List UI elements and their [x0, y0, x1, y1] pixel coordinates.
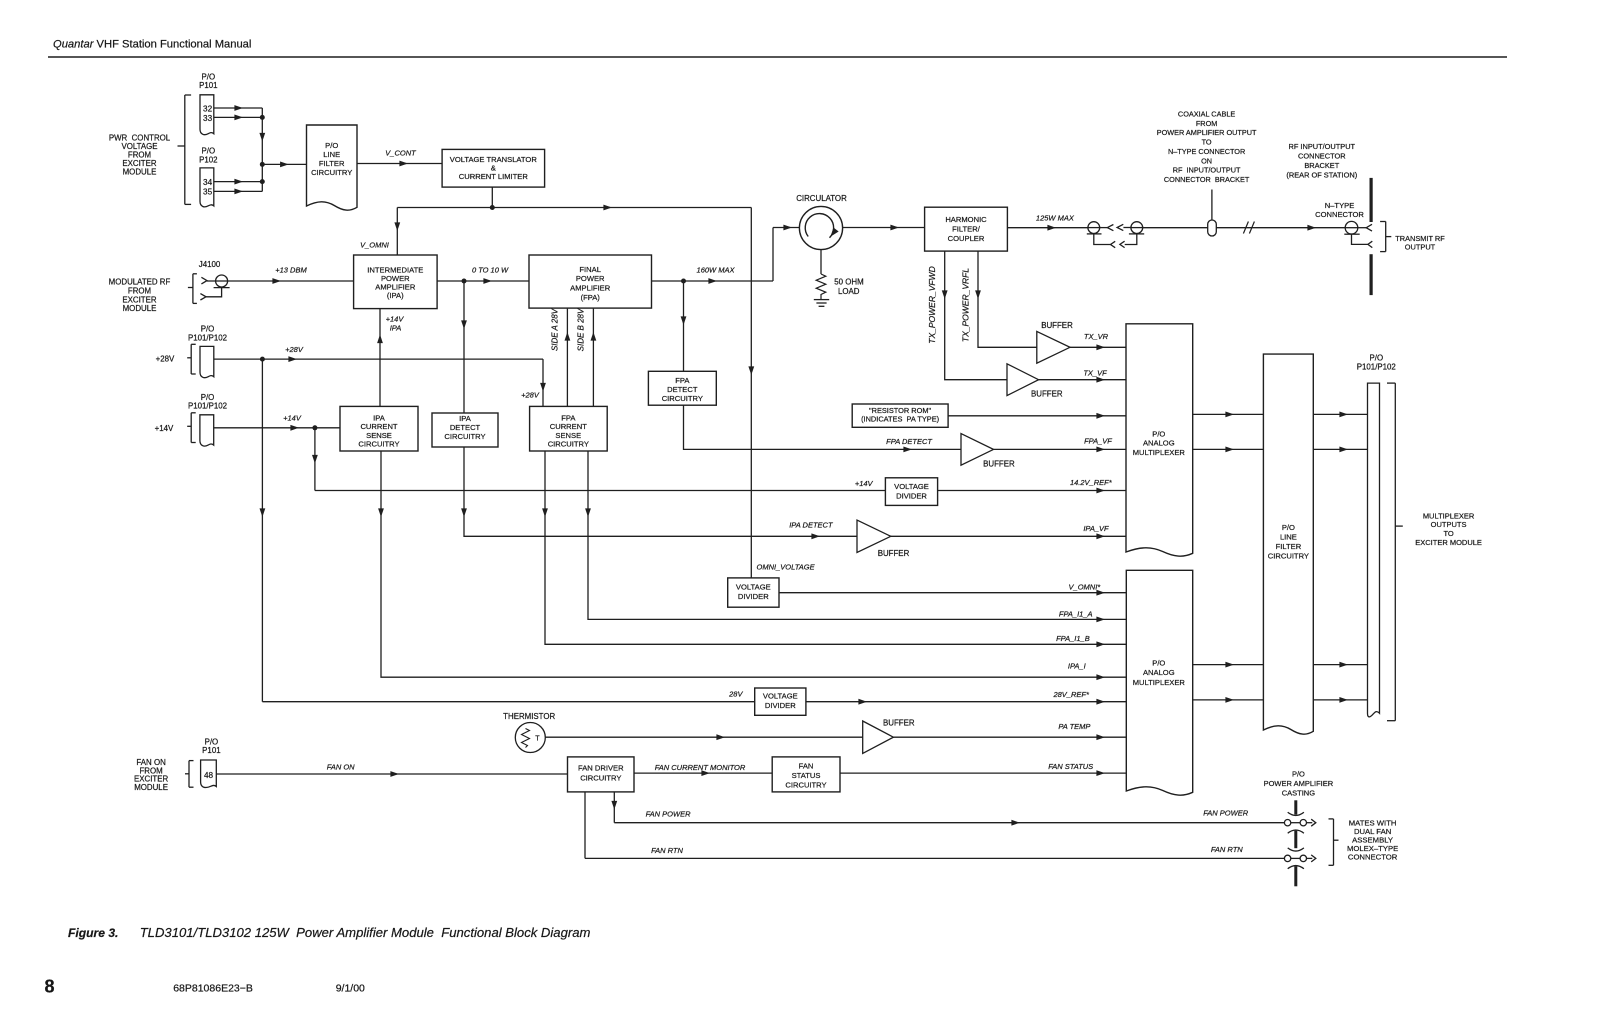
svg-text:EXCITER MODULE: EXCITER MODULE — [1415, 538, 1482, 547]
svg-text:TLD3101/TLD3102 125W Power Am: TLD3101/TLD3102 125W Power Amplifier Mod… — [140, 925, 591, 940]
svg-text:BUFFER: BUFFER — [983, 460, 1015, 469]
svg-text:HARMONIC: HARMONIC — [945, 215, 987, 224]
box U13 voltage divider (omni) — [728, 578, 779, 607]
brace molex connector — [1329, 819, 1339, 865]
svg-text:MULTIPLEXER: MULTIPLEXER — [1423, 511, 1475, 520]
buffer A1 (TX_VR) — [1037, 331, 1070, 363]
svg-text:FPA_VF: FPA_VF — [1084, 436, 1112, 445]
buffer A3 (FPA_VF) — [961, 434, 994, 466]
svg-text:33: 33 — [203, 114, 213, 123]
svg-text:FPA: FPA — [561, 413, 576, 422]
label CIRCULATOR — [796, 194, 847, 203]
header rule — [48, 56, 1507, 58]
svg-text:CONNECTOR: CONNECTOR — [1315, 210, 1364, 219]
box U17 fan status circuitry — [772, 757, 840, 792]
bracket +14V — [187, 413, 196, 443]
svg-text:SIDE A 28V: SIDE A 28V — [551, 308, 560, 351]
wire TX_VF to mux — [1039, 377, 1126, 383]
svg-text:8: 8 — [45, 977, 55, 997]
svg-text:TX_POWER_VFWD: TX_POWER_VFWD — [927, 266, 937, 343]
svg-text:ANALOG: ANALOG — [1143, 439, 1175, 448]
svg-text:VOLTAGE: VOLTAGE — [763, 692, 798, 701]
label MODULATED RF FROM EXCITER MODULE — [109, 278, 171, 314]
svg-text:FPA_I1_B: FPA_I1_B — [1056, 634, 1090, 643]
svg-text:&: & — [491, 164, 496, 173]
svg-text:68P81086E23−B: 68P81086E23−B — [173, 983, 253, 995]
wire bus to line filter — [262, 162, 306, 168]
svg-text:CIRCUITRY: CIRCUITRY — [548, 440, 589, 449]
text U5 — [945, 215, 987, 243]
label BUFFER A4 — [878, 549, 910, 558]
wire V_CONT — [357, 161, 442, 167]
casting flare 3 — [1288, 848, 1304, 851]
svg-text:+14V: +14V — [386, 315, 405, 324]
connector +14V flag — [200, 415, 214, 446]
wire FPA_I1_B output — [542, 451, 1126, 647]
box U14 voltage divider (28V) — [755, 688, 806, 715]
buffer A2 (TX_VF) — [1007, 364, 1039, 396]
box U6 P/O analog multiplexer (upper) — [1126, 324, 1193, 556]
label TRANSMIT RF OUTPUT — [1395, 234, 1445, 252]
wire pin33 to bus — [214, 115, 262, 121]
wire 14.2V_REF* to mux — [938, 488, 1126, 494]
svg-text:P/O: P/O — [1152, 429, 1165, 438]
svg-text:(REAR OF STATION): (REAR OF STATION) — [1286, 170, 1357, 179]
casting flare 1 — [1288, 812, 1304, 815]
svg-text:CURRENT LIMITER: CURRENT LIMITER — [459, 172, 529, 181]
svg-text:OUTPUTS: OUTPUTS — [1431, 520, 1467, 529]
wire V_OMNI* to mux — [779, 590, 1126, 596]
connector P101 pin 48 flag — [201, 760, 217, 788]
bracket PWR CONTROL group — [178, 95, 192, 204]
text U14 — [763, 692, 798, 711]
buffer A5 (PA TEMP) — [863, 721, 894, 753]
svg-text:N–TYPE CONNECTOR: N–TYPE CONNECTOR — [1168, 147, 1245, 156]
casting flare 2 — [1288, 830, 1304, 833]
svg-text:P/O: P/O — [1292, 770, 1305, 779]
net label V_OMNI — [360, 241, 389, 250]
svg-text:FAN STATUS: FAN STATUS — [1048, 762, 1093, 771]
net label TX_VR — [1084, 332, 1109, 341]
wire 28V bus down — [260, 359, 266, 702]
net label FAN POWER (right) — [1203, 809, 1248, 818]
junction pin34/bus — [260, 179, 265, 184]
svg-text:CURRENT: CURRENT — [360, 422, 397, 431]
svg-text:28V: 28V — [728, 690, 743, 699]
wire FPA riser to circulator — [773, 225, 799, 281]
net label +14V (divider) — [855, 479, 874, 488]
net label FPA DETECT — [886, 437, 933, 446]
label MULTIPLEXER OUTPUTS TO EXCITER MODULE — [1415, 511, 1482, 546]
svg-text:48: 48 — [204, 771, 214, 780]
svg-text:BUFFER: BUFFER — [878, 549, 910, 558]
wire FPA_I1_A output — [585, 451, 1126, 622]
svg-text:CIRCUITRY: CIRCUITRY — [1268, 551, 1309, 560]
wire mux2 out B — [1193, 697, 1264, 703]
svg-text:CIRCUITRY: CIRCUITRY — [662, 394, 703, 403]
net label FPA_VF — [1084, 436, 1112, 445]
text U6 — [1133, 429, 1186, 457]
text U7 — [861, 406, 939, 424]
svg-text:P101: P101 — [199, 81, 217, 90]
svg-text:EXCITER: EXCITER — [122, 295, 156, 304]
svg-text:V_OMNI*: V_OMNI* — [1069, 582, 1102, 591]
wire N shield path — [1352, 234, 1368, 244]
svg-text:VOLTAGE TRANSLATOR: VOLTAGE TRANSLATOR — [450, 155, 538, 164]
bracket FAN ON — [185, 761, 194, 788]
svg-text:50 OHM: 50 OHM — [834, 277, 863, 286]
doc number — [173, 983, 253, 995]
connector J4100 center pin chevron — [201, 277, 207, 284]
wire 125W MAX — [1007, 225, 1087, 231]
label J4100 — [199, 260, 221, 269]
brace multiplexer outputs — [1387, 383, 1403, 721]
net label 0 TO 10 W — [472, 266, 509, 275]
wire +14V rail — [214, 425, 340, 431]
wire pwr-control bus vertical — [259, 108, 265, 191]
net label 28V_REF* — [1052, 690, 1090, 699]
bracket wall RF connector (upper) — [1369, 178, 1372, 222]
svg-text:FILTER/: FILTER/ — [952, 225, 981, 234]
svg-text:P101: P101 — [202, 746, 220, 755]
net label +13 DBM — [275, 266, 307, 275]
wire modulated RF to IPA — [228, 278, 354, 284]
label PWR CONTROL VOLTAGE FROM EXCITER MODULE — [109, 133, 171, 176]
net label FAN ON — [327, 763, 355, 772]
junction V_CONT node — [490, 205, 495, 210]
svg-text:9/1/00: 9/1/00 — [336, 983, 365, 995]
svg-text:125W MAX: 125W MAX — [1036, 214, 1075, 223]
svg-text:CIRCUITRY: CIRCUITRY — [580, 773, 621, 782]
wire chevron to jack — [207, 280, 216, 282]
svg-text:P101/P102: P101/P102 — [188, 402, 227, 411]
connector cable jack — [1129, 222, 1144, 234]
svg-text:P/O: P/O — [201, 393, 215, 402]
box U3 intermediate power amplifier (IPA) — [354, 255, 438, 309]
casting wall segment 3 — [1294, 866, 1297, 886]
wire pin35 to bus — [214, 189, 262, 195]
svg-text:IPA: IPA — [459, 414, 472, 423]
net label TX_POWER_VRFL — [960, 268, 970, 342]
svg-text:P/O: P/O — [202, 72, 216, 81]
svg-text:+13 DBM: +13 DBM — [275, 266, 307, 275]
svg-text:CIRCUITRY: CIRCUITRY — [785, 780, 826, 789]
label +14V input — [155, 424, 174, 433]
text U4 — [570, 265, 611, 302]
svg-text:CONNECTOR: CONNECTOR — [1298, 151, 1346, 160]
svg-text:SENSE: SENSE — [366, 431, 392, 440]
svg-text:FAN DRIVER: FAN DRIVER — [578, 764, 624, 773]
pin number 33 — [203, 114, 213, 123]
circulator symbol — [799, 206, 842, 249]
text U18 — [1268, 523, 1309, 561]
junction FPA output — [681, 279, 686, 284]
leader coax label — [1211, 190, 1213, 221]
svg-text:STATUS: STATUS — [792, 771, 821, 780]
pin number 48 — [204, 771, 214, 780]
text U1 — [311, 141, 352, 177]
label P/O POWER AMPLIFIER CASTING — [1264, 770, 1334, 798]
net label 125W MAX — [1036, 214, 1075, 223]
svg-text:FPA DETECT: FPA DETECT — [886, 437, 933, 446]
svg-text:CIRCULATOR: CIRCULATOR — [796, 194, 847, 203]
svg-text:VOLTAGE: VOLTAGE — [894, 482, 929, 491]
svg-text:P101/P102: P101/P102 — [1357, 362, 1396, 371]
net label +28V — [285, 345, 304, 354]
wire U2 output stub — [491, 187, 493, 207]
text U12 — [662, 376, 703, 403]
pin number 34 — [203, 178, 213, 187]
wire circulator to harmonic filter — [843, 225, 925, 231]
casting wall segment 2 — [1294, 831, 1297, 849]
box U1 P/O line filter circuitry — [307, 125, 358, 210]
svg-text:VOLTAGE: VOLTAGE — [736, 582, 771, 591]
svg-text:P/O: P/O — [325, 141, 338, 150]
svg-text:+28V: +28V — [156, 355, 175, 364]
connector PA output jack — [1087, 222, 1102, 234]
svg-text:FROM: FROM — [1196, 119, 1217, 128]
svg-text:CASTING: CASTING — [1282, 788, 1316, 797]
text U9 — [358, 413, 399, 448]
svg-text:Figure 3.: Figure 3. — [68, 926, 118, 940]
net label V_OMNI* — [1069, 582, 1102, 591]
svg-text:CURRENT: CURRENT — [550, 422, 587, 431]
svg-text:FPA_I1_A: FPA_I1_A — [1059, 609, 1093, 618]
junction pin33/bus — [260, 115, 265, 120]
wire V_CONT distribution — [397, 205, 751, 211]
label P/O P101/P102 (14V) — [188, 393, 227, 411]
wire FAN ON — [216, 771, 567, 777]
box U2 voltage translator / current limiter — [442, 149, 544, 187]
label P/O P101/P102 (output) — [1357, 354, 1396, 372]
svg-text:FINAL: FINAL — [579, 265, 601, 274]
text U16 — [578, 764, 624, 783]
label COAXIAL CABLE ... CONNECTOR BRACKET — [1157, 110, 1257, 184]
wire mux1 out A — [1193, 412, 1264, 418]
net label 160W MAX — [697, 266, 736, 275]
svg-text:TX_VR: TX_VR — [1084, 332, 1109, 341]
svg-text:IPA: IPA — [390, 324, 402, 333]
svg-text:FPA: FPA — [675, 376, 690, 385]
label P/O P101 (top) — [199, 72, 217, 90]
label BUFFER A5 — [883, 718, 915, 727]
wire filter2 out B — [1313, 447, 1367, 453]
label P/O P101/P102 (28V) — [188, 325, 227, 343]
label P/O P102 — [199, 146, 217, 164]
box U18 P/O line filter circuitry (right) — [1263, 354, 1313, 734]
net label TX_VF — [1083, 369, 1107, 378]
svg-text:RF INPUT/OUTPUT: RF INPUT/OUTPUT — [1289, 142, 1356, 151]
pin number 32 — [203, 105, 213, 114]
box U4 final power amplifier (FPA) — [529, 255, 652, 308]
svg-text:MODULE: MODULE — [123, 304, 157, 313]
wire pin34 to bus — [214, 179, 262, 185]
net label +28V (FPA) — [521, 391, 540, 400]
wire cable run — [1142, 227, 1207, 229]
box U9 IPA current sense circuitry — [340, 406, 418, 451]
svg-text:Quantar VHF Station Functional: Quantar VHF Station Functional Manual — [53, 39, 251, 51]
svg-text:FAN CURRENT MONITOR: FAN CURRENT MONITOR — [655, 763, 746, 772]
wire FAN STATUS to mux — [840, 770, 1126, 776]
svg-text:T: T — [535, 734, 540, 743]
connector +28V flag — [200, 346, 214, 377]
svg-text:MODULE: MODULE — [123, 168, 157, 177]
label THERMISTOR — [503, 712, 555, 721]
svg-text:+14V: +14V — [155, 424, 174, 433]
casting wall segment 1 — [1294, 800, 1297, 814]
coax cable ferrule — [1208, 220, 1217, 236]
svg-text:FAN RTN: FAN RTN — [1211, 845, 1243, 854]
svg-text:DETECT: DETECT — [450, 423, 481, 432]
connector J4100 shield chevron — [200, 294, 206, 300]
box U10 IPA detect circuitry — [432, 413, 498, 447]
svg-text:0 TO 10 W: 0 TO 10 W — [472, 266, 509, 275]
svg-text:PA TEMP: PA TEMP — [1058, 722, 1090, 731]
wire +14V drop and run — [312, 428, 318, 491]
bracket J4100 — [188, 274, 197, 304]
svg-text:ON: ON — [1201, 156, 1212, 165]
svg-text:CIRCUITRY: CIRCUITRY — [444, 432, 485, 441]
svg-text:+28V: +28V — [521, 391, 540, 400]
wire filter2 out A — [1313, 412, 1367, 418]
text U8 — [894, 482, 929, 501]
ground 50-ohm load — [814, 300, 829, 307]
svg-text:LINE: LINE — [323, 150, 340, 159]
svg-text:+14V: +14V — [855, 479, 874, 488]
net label SIDE A 28V — [551, 308, 560, 351]
page number — [45, 977, 55, 997]
brace transmit RF output — [1380, 222, 1391, 252]
buffer A4 (IPA_VF) — [857, 520, 891, 552]
junction IPA output — [462, 279, 467, 284]
svg-text:LINE: LINE — [1280, 532, 1297, 541]
wire 28V_REF* to mux — [806, 699, 1126, 705]
wire FPA_VF to mux — [994, 447, 1127, 453]
connector P102 pins 34/35 — [200, 168, 214, 207]
box U8 voltage divider (14V) — [885, 478, 937, 506]
svg-text:SIDE B 28V: SIDE B 28V — [577, 308, 586, 351]
svg-text:P102: P102 — [199, 155, 217, 164]
svg-text:MULTIPLEXER: MULTIPLEXER — [1133, 678, 1186, 687]
wire thermistor to buffer — [545, 734, 862, 740]
wire FPA output 160W — [652, 278, 774, 284]
svg-text:MODULATED RF: MODULATED RF — [109, 278, 171, 287]
box U12 FPA detect circuitry — [648, 371, 716, 405]
wire IPA to FPA — [437, 278, 529, 284]
svg-text:CIRCUITRY: CIRCUITRY — [311, 168, 352, 177]
label N-TYPE CONNECTOR — [1315, 201, 1364, 219]
text U2 — [450, 155, 538, 181]
contact chevron pair upper — [1100, 224, 1131, 230]
net label FAN STATUS — [1048, 762, 1093, 771]
svg-text:32: 32 — [203, 105, 213, 114]
label BUFFER A3 — [983, 460, 1015, 469]
svg-text:IPA_VF: IPA_VF — [1083, 524, 1109, 533]
wire PA TEMP to mux — [893, 734, 1126, 740]
net label FAN CURRENT MONITOR — [655, 763, 746, 772]
text U10 — [444, 414, 485, 441]
wire 160W to FPA detect — [681, 281, 687, 371]
svg-text:35: 35 — [203, 188, 213, 197]
svg-text:(INDICATES PA TYPE): (INDICATES PA TYPE) — [861, 415, 939, 424]
net label SIDE B 28V — [577, 308, 586, 351]
junction bus/output — [260, 162, 265, 167]
header title: Quantar VHF Station Functional Manual — [53, 39, 251, 51]
bracket wall RF connector (lower) — [1369, 254, 1372, 295]
svg-text:BRACKET: BRACKET — [1304, 161, 1339, 170]
net label FAN RTN (left) — [651, 846, 683, 855]
wire FPA detect output — [684, 405, 962, 452]
connector N-type jack — [1344, 221, 1359, 234]
wire mux1 out B — [1193, 447, 1264, 453]
connector J4100 jack underline — [214, 287, 230, 289]
svg-text:FILTER: FILTER — [319, 159, 345, 168]
feedthrough FAN RTN — [1284, 855, 1315, 862]
text U13 — [736, 582, 771, 601]
svg-text:N–TYPE: N–TYPE — [1325, 201, 1355, 210]
svg-text:MODULE: MODULE — [134, 783, 168, 792]
net label +14V IPA — [386, 315, 405, 333]
wire pin32 to bus — [214, 105, 262, 111]
wire side B 28V — [591, 309, 597, 407]
label RF INPUT/OUTPUT CONNECTOR BRACKET (REAR OF STATION) — [1286, 142, 1357, 180]
feedthrough FAN POWER — [1284, 819, 1315, 826]
svg-text:CONNECTOR BRACKET: CONNECTOR BRACKET — [1164, 175, 1250, 184]
svg-text:14.2V_REF*: 14.2V_REF* — [1070, 478, 1113, 487]
box U16 fan driver circuitry — [568, 757, 635, 792]
label FAN ON FROM EXCITER MODULE — [134, 758, 168, 792]
label P/O P101 (fan) — [202, 738, 220, 755]
wire shield path lower pair — [1094, 234, 1137, 245]
net label TX_POWER_VFWD — [927, 266, 937, 343]
wire to N-type connector — [1216, 225, 1345, 231]
svg-text:LOAD: LOAD — [838, 287, 860, 296]
wire +28V rail — [214, 356, 543, 362]
svg-text:SENSE: SENSE — [555, 431, 581, 440]
svg-text:FAN: FAN — [799, 762, 814, 771]
wire FAN POWER drop — [611, 792, 617, 823]
connector P101 pins 32/33 — [200, 95, 214, 135]
svg-text:34: 34 — [203, 178, 213, 187]
net label PA TEMP — [1058, 722, 1090, 731]
svg-text:TX_VF: TX_VF — [1083, 369, 1107, 378]
contact chevron pair lower — [1111, 241, 1125, 248]
box U11 FPA current sense circuitry — [530, 406, 608, 451]
svg-text:V_CONT: V_CONT — [385, 149, 417, 158]
svg-text:CIRCUITRY: CIRCUITRY — [358, 440, 399, 449]
svg-text:COUPLER: COUPLER — [948, 234, 985, 243]
svg-text:J4100: J4100 — [199, 260, 221, 269]
svg-text:P101/P102: P101/P102 — [188, 333, 227, 342]
pin number 35 — [203, 188, 213, 197]
wire +14V to divider — [315, 490, 886, 492]
svg-text:DETECT: DETECT — [667, 385, 698, 394]
svg-text:OUTPUT: OUTPUT — [1405, 242, 1436, 251]
wire 28V run — [262, 701, 754, 703]
wire IPA detect to buffer — [461, 447, 857, 539]
connector P101/P102 output flag — [1368, 383, 1380, 717]
wire IPA_VF to mux — [891, 533, 1126, 539]
svg-text:P/O: P/O — [1152, 658, 1165, 667]
box U7 resistor ROM — [852, 404, 948, 427]
bracket +28V — [187, 344, 196, 374]
net label IPA_VF — [1083, 524, 1109, 533]
svg-text:POWER AMPLIFIER OUTPUT: POWER AMPLIFIER OUTPUT — [1157, 128, 1257, 137]
svg-text:OMNI_VOLTAGE: OMNI_VOLTAGE — [757, 563, 816, 572]
contact chevron N upper — [1358, 224, 1372, 231]
thermistor RT1 — [515, 723, 545, 753]
wire IPA detect drop — [461, 281, 467, 413]
